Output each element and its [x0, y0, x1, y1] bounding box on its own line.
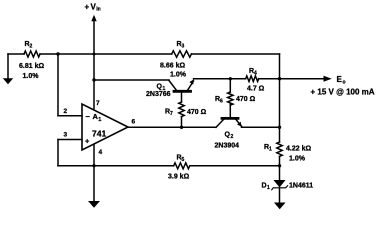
svg-text:6: 6 — [220, 99, 223, 105]
svg-text:1: 1 — [98, 117, 101, 123]
svg-text:in: in — [96, 7, 100, 13]
svg-text:5: 5 — [182, 157, 185, 163]
svg-text:3: 3 — [64, 132, 68, 139]
svg-text:o: o — [343, 80, 346, 86]
svg-text:4: 4 — [254, 71, 257, 77]
svg-text:7: 7 — [170, 111, 173, 117]
svg-text:7: 7 — [96, 100, 100, 107]
svg-text:8.66 kΩ: 8.66 kΩ — [160, 63, 185, 70]
svg-text:2: 2 — [30, 44, 33, 50]
svg-text:2N3904: 2N3904 — [215, 143, 240, 150]
svg-text:1.0%: 1.0% — [23, 73, 40, 80]
svg-text:2: 2 — [231, 134, 234, 140]
svg-text:+: + — [85, 137, 90, 146]
svg-text:1N4611: 1N4611 — [289, 183, 313, 190]
svg-text:3: 3 — [182, 44, 185, 50]
svg-text:+ 15 V @ 100 mA: + 15 V @ 100 mA — [311, 87, 375, 96]
svg-text:4: 4 — [99, 149, 103, 156]
svg-text:4.22 kΩ: 4.22 kΩ — [286, 146, 311, 153]
svg-text:741: 741 — [92, 129, 106, 139]
svg-text:2N3766: 2N3766 — [146, 91, 171, 98]
svg-text:1: 1 — [269, 147, 272, 153]
svg-text:6: 6 — [132, 119, 136, 126]
svg-text:3.9 kΩ: 3.9 kΩ — [168, 174, 190, 181]
svg-text:1.0%: 1.0% — [170, 72, 187, 79]
svg-text:6.81 kΩ: 6.81 kΩ — [19, 63, 44, 70]
svg-text:1: 1 — [267, 185, 270, 191]
svg-text:−: − — [86, 112, 91, 121]
svg-text:2: 2 — [64, 108, 68, 115]
svg-text:D: D — [262, 183, 267, 190]
svg-text:470 Ω: 470 Ω — [236, 96, 256, 103]
svg-text:1.0%: 1.0% — [289, 156, 306, 163]
svg-text:4.7 Ω: 4.7 Ω — [247, 86, 265, 93]
svg-text:+: + — [85, 3, 90, 12]
svg-text:470 Ω: 470 Ω — [187, 109, 207, 116]
